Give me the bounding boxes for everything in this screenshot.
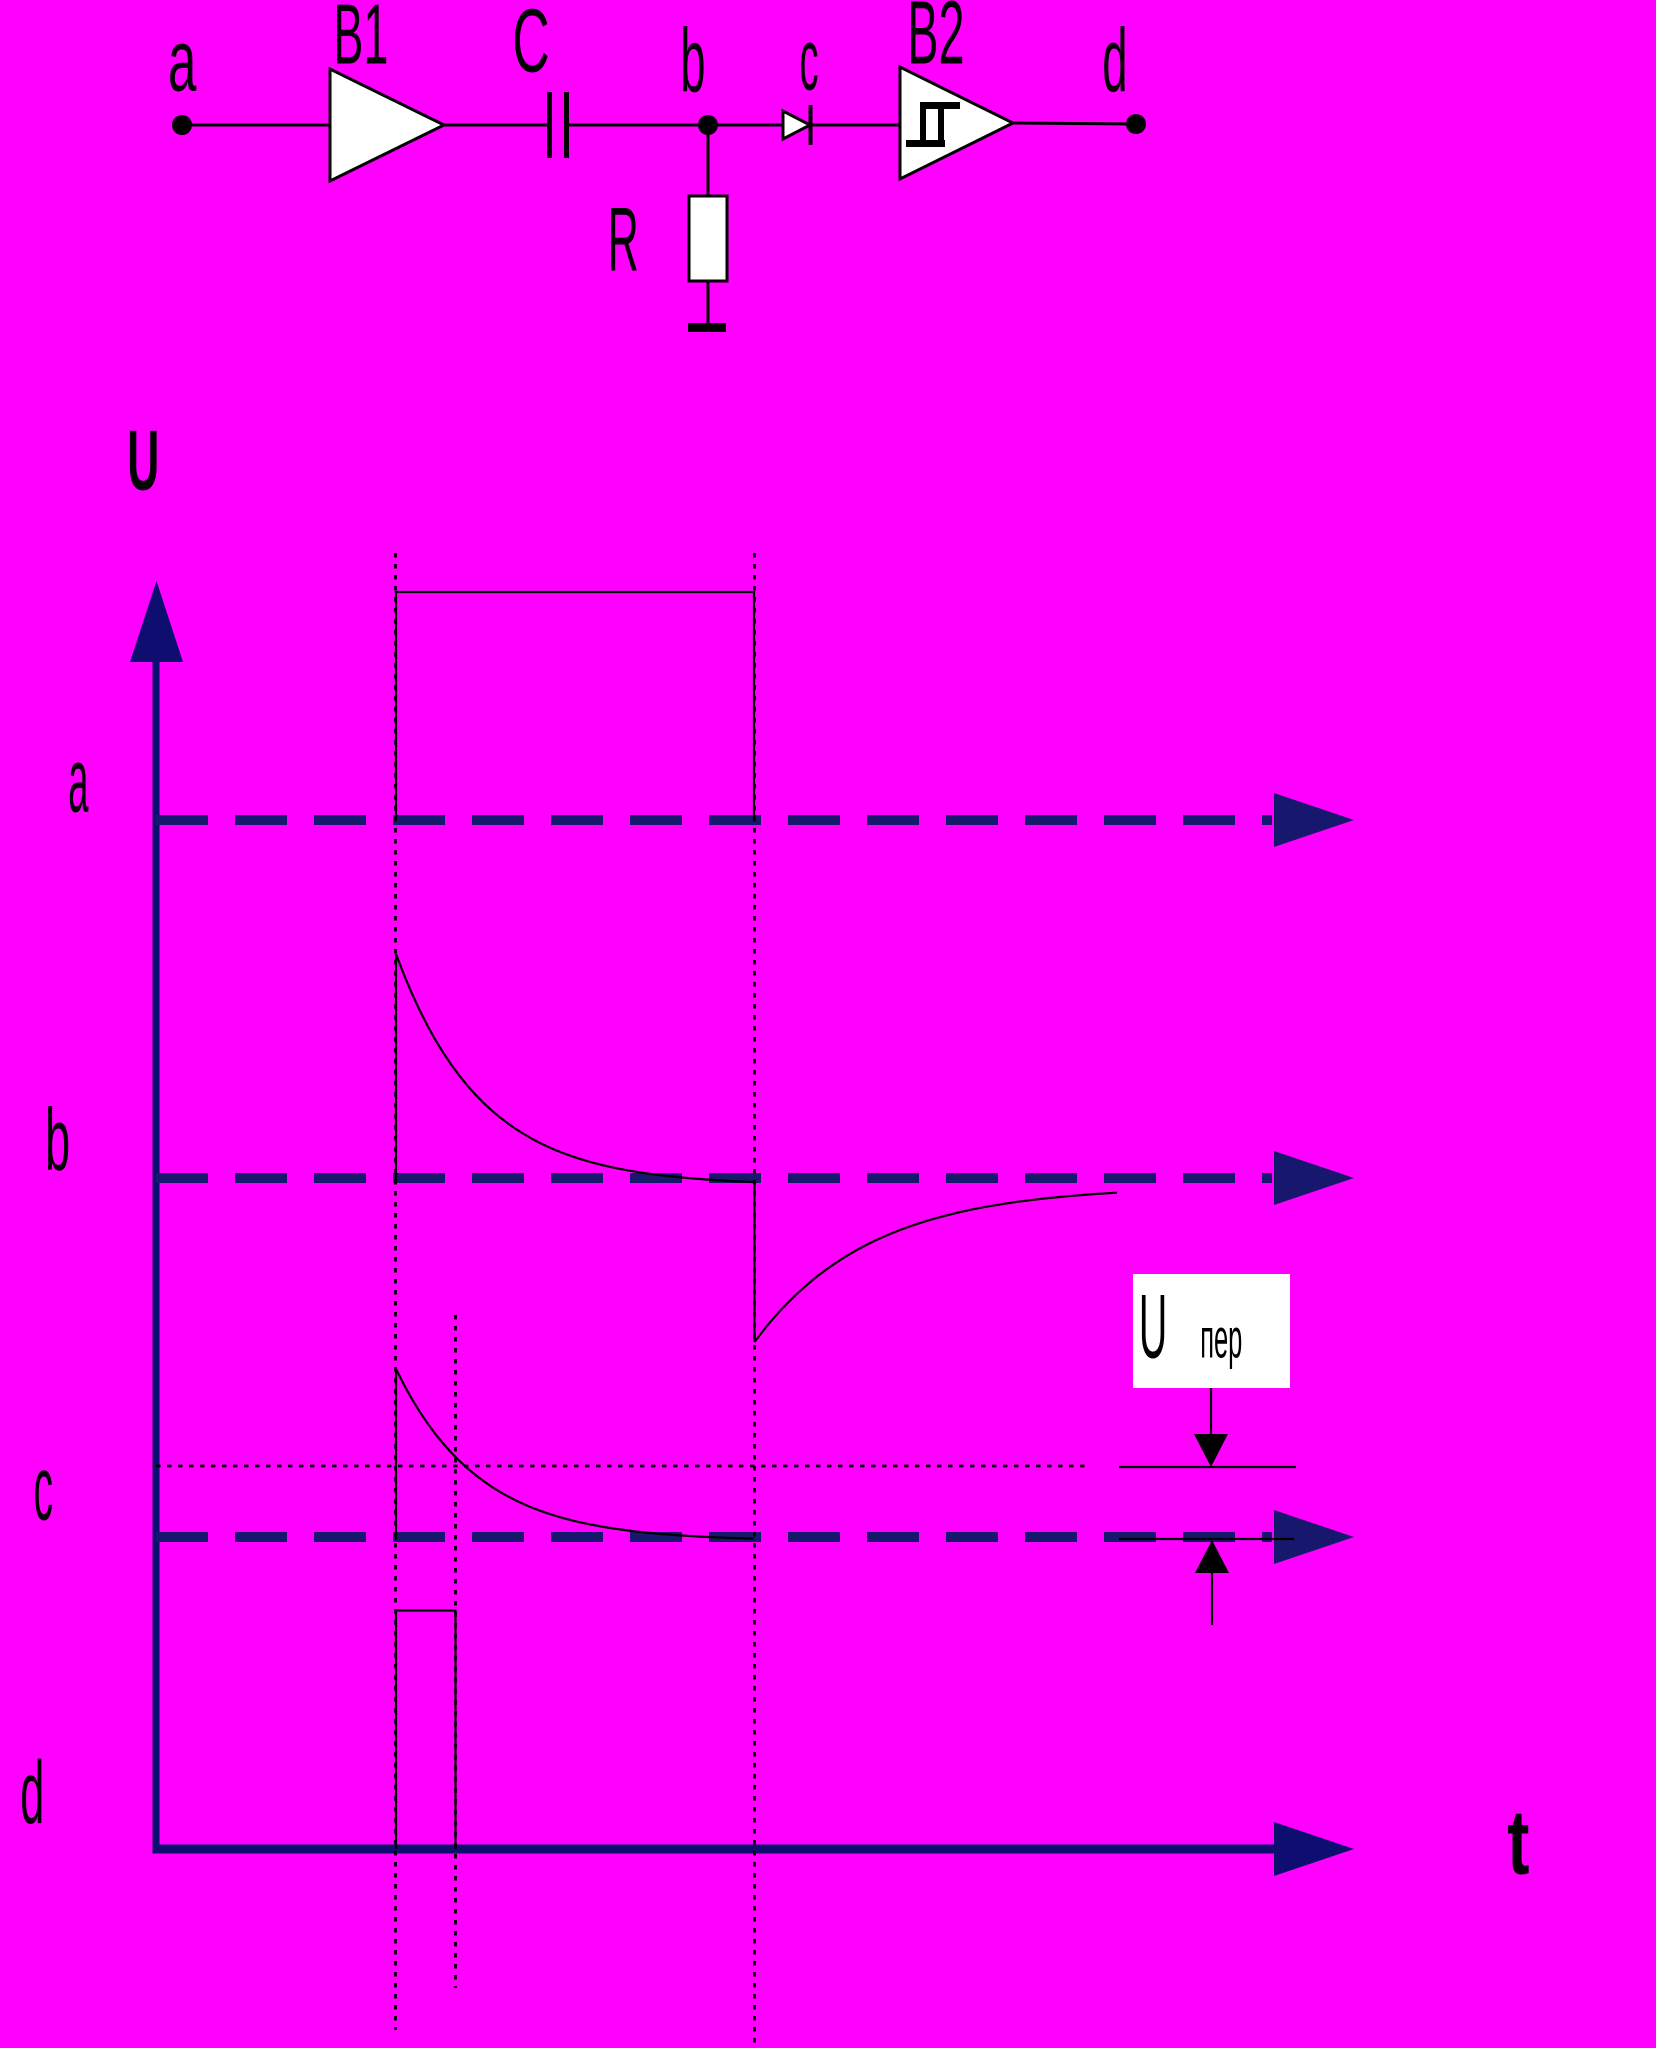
wire B2 to node d xyxy=(1013,123,1136,124)
waveform b recovery curve xyxy=(755,1193,1118,1342)
dashed level line c xyxy=(156,1510,1354,1564)
node d xyxy=(1126,114,1146,134)
svg-text:C: C xyxy=(512,0,549,91)
waveform a pulse xyxy=(396,592,754,820)
schmitt trigger B2 xyxy=(900,67,1013,179)
U per down arrow xyxy=(1194,1388,1228,1467)
dotted time marker t2 (x=455) xyxy=(454,1315,457,1988)
svg-text:c: c xyxy=(800,12,819,109)
buffer B1 xyxy=(330,69,444,181)
resistor R xyxy=(689,196,727,281)
svg-text:t: t xyxy=(1507,1791,1529,1894)
waveform b rising edge xyxy=(395,954,397,1183)
ground xyxy=(688,323,726,332)
svg-text:пер: пер xyxy=(1200,1309,1242,1371)
svg-text:b: b xyxy=(45,1090,70,1190)
svg-text:U: U xyxy=(1139,1274,1167,1377)
svg-text:B1: B1 xyxy=(333,0,388,82)
U per up arrow xyxy=(1195,1540,1229,1625)
svg-text:c: c xyxy=(34,1436,54,1539)
dashed level line a xyxy=(156,793,1354,847)
svg-text:b: b xyxy=(680,11,705,112)
waveform b decay curve xyxy=(396,954,754,1182)
wire C to node b xyxy=(569,124,708,127)
svg-text:d: d xyxy=(20,1743,44,1842)
wire diode to B2 xyxy=(812,124,900,127)
wire node b down to resistor xyxy=(707,125,710,196)
svg-text:a: a xyxy=(168,13,197,111)
waveform b falling edge at t2 xyxy=(753,1184,755,1342)
svg-text:d: d xyxy=(1102,11,1127,112)
U per label box xyxy=(1133,1274,1290,1388)
U axis (vertical) xyxy=(130,581,183,1853)
svg-text:U: U xyxy=(127,413,159,508)
wire a to B1 xyxy=(182,124,330,127)
U per upper level line xyxy=(1119,1466,1296,1468)
diode xyxy=(783,105,811,145)
dotted threshold level line xyxy=(156,1465,1091,1468)
svg-text:a: a xyxy=(68,729,88,831)
capacitor C xyxy=(550,92,567,158)
waveform c decay curve xyxy=(396,1369,754,1539)
waveform c rising edge xyxy=(395,1369,397,1540)
dotted time marker t1 (x=396) xyxy=(394,553,397,2030)
t axis (horizontal) xyxy=(153,1822,1355,1876)
U per lower level line xyxy=(1119,1538,1294,1540)
node b junction xyxy=(698,115,718,135)
svg-text:B2: B2 xyxy=(907,0,964,83)
svg-text:R: R xyxy=(608,189,639,291)
waveform d pulse xyxy=(396,1611,456,1850)
dotted time marker t3 (x=754) xyxy=(753,553,756,2045)
node a xyxy=(172,115,192,135)
wire B1 to C xyxy=(444,124,547,127)
wire resistor to ground xyxy=(707,281,710,324)
wire node b to diode xyxy=(708,124,783,127)
dashed level line b xyxy=(156,1151,1354,1205)
